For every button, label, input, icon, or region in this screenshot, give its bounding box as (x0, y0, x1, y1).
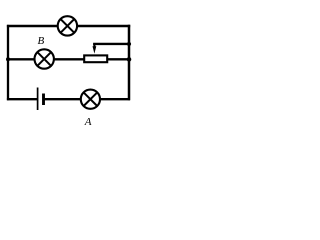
battery cell: long plate (positive) (37, 88, 39, 111)
wire: right vertical (128, 25, 131, 101)
wire: top horizontal right of lamp L1 (78, 25, 130, 28)
lamp B (35, 49, 54, 68)
svg-text:A: A (84, 116, 92, 128)
lamp L1 (top, unlabeled) (58, 16, 77, 35)
svg-text:B: B (38, 35, 45, 47)
wire: battery to lamp A (44, 98, 80, 100)
rheostat R (body rectangle) (84, 55, 107, 62)
lamp A (81, 90, 100, 109)
wire: middle horizontal, lamp B to rheostat (55, 58, 85, 60)
wire: wiper horizontal to right vertical (93, 43, 130, 45)
wire: lamp A to right vertical (101, 98, 130, 100)
wire: top horizontal left of lamp L1 (7, 25, 58, 28)
rheostat wiper arrow (93, 44, 97, 54)
junction node on left vertical at middle wire (6, 57, 10, 61)
wire: rheostat to right vertical (108, 58, 131, 60)
junction node on right vertical at middle wire (127, 57, 132, 62)
wire: left vertical (7, 25, 9, 100)
battery cell: short thick plate (negative) (42, 94, 45, 106)
junction node on right vertical at wiper wire (127, 42, 131, 46)
wire: bottom horizontal left segment to battery (7, 98, 37, 100)
wire: middle horizontal, left segment (7, 58, 34, 60)
